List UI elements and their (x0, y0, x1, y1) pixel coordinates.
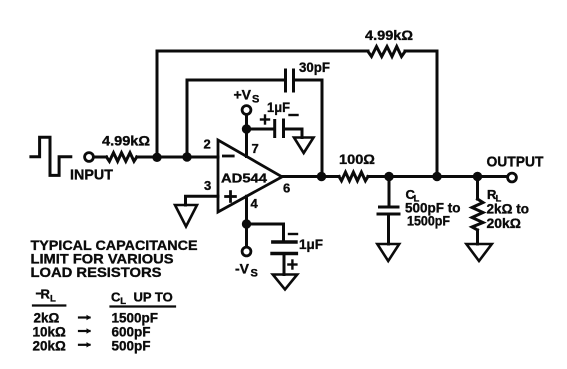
svg-text:20kΩ: 20kΩ (33, 339, 67, 354)
wire 30pF right vertical to output node (321, 80, 324, 177)
wire feedback right vertical to output rail (436, 51, 439, 177)
ground (C2) (294, 138, 314, 154)
svg-text:S: S (251, 268, 258, 280)
svg-text:+V: +V (234, 87, 252, 103)
wire capacitor C1 to right vertical (295, 79, 322, 82)
svg-text:2kΩ to: 2kΩ to (487, 201, 530, 216)
net label +Vs (234, 87, 260, 106)
resistor R3 100 ohm (339, 172, 368, 181)
ground (C3) (273, 275, 297, 290)
svg-text:6: 6 (283, 181, 290, 196)
resistor R2 4.99k (feedback) (368, 47, 405, 57)
node RL junction (473, 172, 482, 181)
net label -Vs (235, 261, 258, 280)
polarity plus mark (C3) (288, 261, 296, 269)
table header underline RL (33, 304, 65, 306)
node A junction (feedback/input) (152, 153, 161, 162)
svg-text:L: L (120, 296, 126, 307)
resistor R1 4.99k (input) (107, 153, 137, 162)
svg-text:2kΩ: 2kΩ (34, 311, 60, 326)
ground (RL) (466, 244, 491, 261)
table header underline CL UP TO (111, 305, 176, 307)
capacitor CL (378, 207, 399, 214)
node CL junction (384, 172, 393, 181)
wire -Vs junction to capacitor C3 (247, 224, 284, 240)
ref label CL (406, 187, 420, 205)
wire op-amp pin 3 stub (186, 196, 219, 205)
wire op-amp output to 100 ohm resistor (282, 175, 339, 178)
wire +Vs junction to capacitor C2 (247, 128, 274, 131)
polarity minus mark (C2) (290, 114, 298, 116)
wire feedback vertical (node A up) (156, 51, 159, 157)
svg-text:4.99kΩ: 4.99kΩ (365, 27, 413, 43)
svg-text:3: 3 (204, 178, 211, 193)
node B junction (30pF branch) (182, 152, 191, 161)
wire RL junction down (476, 177, 479, 200)
node -Vs terminal (242, 247, 251, 256)
op-amp U1 AD544 triangle (218, 140, 282, 212)
svg-text:L: L (50, 294, 56, 305)
resistor RL (472, 199, 483, 230)
wire CL junction down (388, 177, 391, 206)
svg-text:1500pF: 1500pF (407, 214, 450, 229)
svg-text:500pF: 500pF (112, 339, 151, 354)
svg-text:4: 4 (251, 196, 259, 211)
svg-text:20kΩ: 20kΩ (487, 216, 522, 231)
wire feedback top run (157, 50, 368, 53)
op-amp plus input mark (226, 192, 236, 202)
svg-text:-V: -V (235, 261, 250, 277)
svg-text:4.99kΩ: 4.99kΩ (102, 133, 150, 149)
wire capacitor CL to ground (387, 216, 390, 245)
wire node B to op-amp pin 2 (187, 156, 218, 159)
capacitor C3 1uF (-Vs bypass) (272, 242, 296, 254)
wire output rail to terminal (368, 175, 507, 178)
node junction on -Vs line (242, 219, 251, 228)
svg-text:2: 2 (204, 137, 211, 152)
node feedback junction (432, 172, 441, 181)
svg-text:10kΩ: 10kΩ (33, 325, 67, 340)
input square-wave source symbol (31, 137, 71, 175)
wire resistor RL to ground (476, 230, 479, 244)
table row 2 arrow (79, 328, 91, 333)
svg-text:INPUT: INPUT (70, 167, 113, 184)
svg-text:7: 7 (252, 141, 259, 156)
ref label RL (487, 187, 502, 205)
capacitor C1 30pF (286, 70, 294, 91)
svg-text:1μF: 1μF (267, 99, 290, 115)
svg-text:R: R (41, 287, 51, 302)
op-amp minus input mark (223, 155, 233, 158)
ground (pin 3) (175, 205, 197, 227)
svg-text:1500pF: 1500pF (112, 311, 159, 326)
wire node A to node B (157, 156, 187, 159)
node OUTPUT terminal (508, 173, 517, 182)
svg-text:100Ω: 100Ω (339, 151, 375, 167)
table row 3 arrow (79, 342, 91, 347)
node junction on +Vs line (242, 124, 251, 133)
wire input terminal to resistor R1 (94, 156, 107, 159)
svg-text:OUTPUT: OUTPUT (487, 154, 544, 171)
table row 1 arrow (79, 315, 91, 320)
node INPUT terminal (85, 153, 94, 162)
svg-text:AD544: AD544 (221, 171, 268, 186)
wire feedback top right run (405, 50, 437, 53)
ground (CL) (377, 244, 399, 261)
wire 30pF branch to capacitor C1 (187, 79, 284, 82)
capacitor C2 1uF (+Vs bypass) (275, 120, 284, 137)
polarity minus mark (C3) (289, 233, 297, 235)
wire resistor R1 to node A (137, 156, 157, 159)
wire +Vs to op-amp pin 7 (245, 115, 248, 157)
node +Vs terminal (242, 106, 251, 115)
node junction 30pF at output rail (317, 172, 326, 181)
wire 30pF branch vertical (node B up) (186, 80, 189, 157)
table header RL (37, 287, 56, 305)
svg-text:600pF: 600pF (112, 325, 151, 340)
polarity plus mark (C2) (261, 116, 269, 124)
svg-text:30pF: 30pF (299, 59, 330, 75)
svg-text:LOAD RESISTORS: LOAD RESISTORS (31, 264, 162, 280)
svg-text:UP TO: UP TO (134, 290, 173, 305)
svg-text:S: S (252, 94, 259, 106)
wire op-amp pin 4 down (245, 196, 248, 247)
svg-text:1μF: 1μF (299, 236, 323, 252)
wire capacitor C2 to ground (285, 129, 302, 138)
table header CL UP TO (111, 290, 173, 308)
wire capacitor C3 to ground (283, 255, 286, 274)
